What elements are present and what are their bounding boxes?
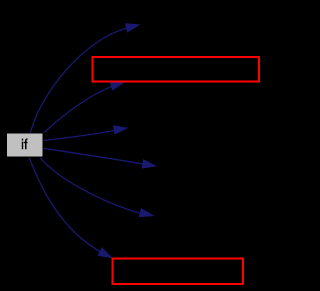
wire edge E5 [40,158,141,214]
wire edge E3 [44,131,115,141]
label if (drawn as vector glyphs) [22,138,28,149]
wire edge E4 [44,148,144,164]
wire edge E6 to red node B [29,158,100,252]
arrowhead E5 [139,208,155,217]
red node A (truncated callee, top right) [93,57,260,82]
arrowhead E3 [113,125,129,135]
arrowhead E2 [110,82,126,91]
arrowhead E1 [125,23,141,32]
wire edge E1 to top node [31,28,127,132]
wire edge E2 to red node A [44,86,112,132]
red node B (truncated callee, bottom) [113,259,244,285]
arrowhead E6 [97,247,113,258]
node if (current function) [7,133,44,157]
arrowhead E4 [142,159,158,169]
